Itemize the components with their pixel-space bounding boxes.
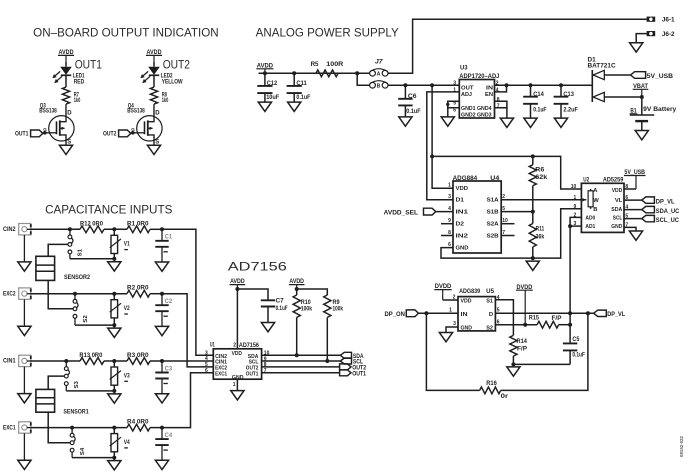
wire <box>150 293 162 295</box>
svg-text:R11: R11 <box>536 226 545 232</box>
wire AD0/AD1 to DP_VL net <box>569 226 571 313</box>
wire U1 SCL <box>262 360 341 362</box>
svg-text:VL: VL <box>615 198 623 204</box>
wire U4 S1A to U2 W <box>501 199 586 201</box>
svg-text:EXC2: EXC2 <box>3 291 16 297</box>
svg-text:EXC1: EXC1 <box>215 371 227 377</box>
node J7 split <box>355 71 359 75</box>
connector output SDA <box>340 352 351 358</box>
svg-text:EXC1: EXC1 <box>3 425 16 431</box>
wire to J7-B <box>357 73 369 85</box>
svg-text:AVDD_SEL: AVDD_SEL <box>384 210 419 216</box>
svg-text:GND: GND <box>456 245 469 251</box>
svg-text:U4: U4 <box>490 176 500 182</box>
ground (R14) <box>507 367 520 376</box>
trimmer cap V2 <box>111 300 118 318</box>
svg-text:OUT1: OUT1 <box>352 371 366 377</box>
switch S4 <box>71 428 73 434</box>
IC U4 ADG884 <box>453 181 501 253</box>
svg-text:3: 3 <box>448 194 451 200</box>
svg-text:IN2: IN2 <box>456 233 469 239</box>
ground (C12) <box>258 102 271 111</box>
capacitor C4 (no pop) <box>161 428 163 440</box>
wire R14 node to C5 bottom <box>513 363 570 365</box>
wire D1 anode to 5V_USB <box>604 74 630 76</box>
svg-text:C6: C6 <box>408 94 417 100</box>
svg-text:AD7156: AD7156 <box>228 261 287 273</box>
node R10/SDA <box>295 353 299 357</box>
capacitor C7 0.1uF <box>261 300 275 306</box>
connector J6-2 <box>647 31 656 36</box>
wire SENSOR1 top to S3 <box>48 376 64 389</box>
svg-text:9V Battery: 9V Battery <box>643 107 677 113</box>
node V1 bottom <box>112 257 116 261</box>
resistor R16 0r <box>480 387 501 394</box>
wire stub S2B <box>501 235 514 237</box>
svg-text:0r: 0r <box>501 394 509 400</box>
wire U1 OUT2 <box>262 366 340 368</box>
svg-text:C13: C13 <box>563 92 574 98</box>
node V2 top <box>112 292 116 296</box>
trimmer cap V4 <box>111 434 118 452</box>
resistor R15 F/P <box>537 321 559 328</box>
svg-text:IN: IN <box>461 312 468 318</box>
capacitor C2 (no pop) <box>161 294 163 306</box>
svg-text:IN: IN <box>486 85 493 91</box>
wire <box>150 228 162 230</box>
node C13 tap <box>559 83 563 87</box>
svg-text:BAT721C: BAT721C <box>588 63 617 69</box>
svg-text:J6-2: J6-2 <box>662 32 675 38</box>
svg-text:A: A <box>377 72 381 78</box>
resistor R4 0R0 <box>127 424 150 431</box>
transistor Q3 BSS138 <box>49 116 74 141</box>
svg-text:BSS138: BSS138 <box>127 108 145 114</box>
svg-text:OUT: OUT <box>461 85 474 91</box>
svg-text:SDA_UC: SDA_UC <box>656 209 680 215</box>
svg-text:C4: C4 <box>165 433 173 439</box>
svg-text:S4: S4 <box>80 447 86 455</box>
node switch S1 tap <box>68 227 72 231</box>
svg-text:GND: GND <box>611 224 622 230</box>
svg-text:62k: 62k <box>535 175 548 181</box>
wire U1 OUT1 <box>262 372 340 374</box>
wire U2 VDD <box>624 188 636 190</box>
wire U2 VL to DP_VL <box>624 199 642 201</box>
resistor R2 0R0 <box>127 290 150 297</box>
svg-text:R3 0R0: R3 0R0 <box>127 353 149 359</box>
wire DP_ON to R16 <box>426 313 479 390</box>
ground (C6) <box>399 117 412 126</box>
svg-text:EN: EN <box>485 92 493 98</box>
transistor Q4 BSS138 <box>137 116 162 141</box>
wire stub IN2 <box>441 235 453 237</box>
svg-text:10: 10 <box>571 184 577 190</box>
svg-text:IN1: IN1 <box>456 210 470 216</box>
svg-text:100k: 100k <box>301 307 313 313</box>
svg-text:VDD: VDD <box>461 298 472 304</box>
capacitor C3 (no pop) <box>161 361 163 373</box>
svg-text:R16: R16 <box>486 381 497 387</box>
svg-text:DP_VL: DP_VL <box>607 312 625 318</box>
capacitor C13 2.2uF <box>560 85 562 97</box>
svg-text:C3: C3 <box>165 366 173 372</box>
wire <box>113 361 115 367</box>
svg-text:0.1uF: 0.1uF <box>533 108 546 114</box>
svg-text:1: 1 <box>449 307 452 313</box>
ground (V2) <box>108 328 121 337</box>
svg-text:0.1uF: 0.1uF <box>276 306 288 312</box>
wire U5 S1 to R14 <box>495 300 513 336</box>
svg-text:100R: 100R <box>326 62 344 68</box>
resistor R6 62k <box>532 156 534 164</box>
svg-text:VDD: VDD <box>232 351 242 357</box>
wire <box>104 360 127 362</box>
LED LED2 YELLOW <box>148 67 160 75</box>
wire DP_VL node down to C5 <box>569 313 571 343</box>
wire U5 GND <box>446 327 458 333</box>
wire stub D2 <box>441 223 453 225</box>
wire U2 SDA to SDA_UC <box>624 209 642 211</box>
sensor SENSOR1 <box>36 389 55 412</box>
svg-text:OUT2: OUT2 <box>103 132 117 138</box>
svg-text:D2: D2 <box>456 222 465 228</box>
svg-text:0.1uF: 0.1uF <box>572 353 585 359</box>
svg-text:GND1 GND4: GND1 GND4 <box>461 106 492 112</box>
wire LED to R8 <box>153 75 155 87</box>
svg-text:RED: RED <box>74 80 85 86</box>
IC U3 ADP1720-ADJ <box>459 80 494 119</box>
wire EXC2 row <box>31 293 127 295</box>
wire CIN1 to U1 pin4 <box>162 360 213 362</box>
svg-text:SDA: SDA <box>611 207 623 213</box>
wire DVDD to U5 VDD <box>443 299 458 301</box>
wire <box>113 294 115 300</box>
node VBAT <box>640 95 644 99</box>
node DP_VL/AD pins <box>568 311 572 315</box>
node R15/C5 <box>568 323 572 327</box>
svg-text:SCL: SCL <box>613 216 623 222</box>
svg-text:R6: R6 <box>535 168 545 174</box>
capacitor C11 0.1uF <box>293 73 295 86</box>
wire J7-B to U3 OUT <box>388 84 459 86</box>
wire U3 IN to D1 cathode <box>495 84 593 86</box>
svg-text:100k: 100k <box>333 307 344 313</box>
svg-text:S2: S2 <box>83 315 89 322</box>
svg-text:R12 0R0: R12 0R0 <box>80 221 104 227</box>
svg-text:OUT1: OUT1 <box>15 132 29 138</box>
wire switch S1 to V1 bottom <box>70 258 114 260</box>
node V3 top <box>112 359 116 363</box>
ground (C14) <box>524 118 537 127</box>
svg-text:S1: S1 <box>486 298 494 304</box>
svg-text:YELLOW: YELLOW <box>162 80 183 86</box>
svg-text:F/P: F/P <box>517 347 527 353</box>
node C4 tap <box>160 426 164 430</box>
connector output SCL <box>340 358 351 364</box>
node C11 tap <box>292 71 296 75</box>
wire J7-A to J6-1 bus <box>388 19 647 73</box>
wire <box>113 385 115 394</box>
IC U2 AD5259 <box>581 183 624 232</box>
svg-text:G: G <box>131 127 135 132</box>
wire R15 to C5 node <box>559 324 570 326</box>
ground (V4) <box>108 461 121 470</box>
svg-text:V4: V4 <box>124 440 131 446</box>
wire U3 left GND pins <box>448 101 460 108</box>
node V1 top <box>112 227 116 231</box>
resistor R7 1k0 <box>62 87 69 104</box>
LED LED1 RED <box>60 67 72 75</box>
svg-text:5V_USB: 5V_USB <box>647 73 674 80</box>
node AVDD/R10 <box>295 287 299 291</box>
wire <box>113 452 115 461</box>
svg-text:3: 3 <box>453 81 456 87</box>
svg-text:CIN1: CIN1 <box>3 359 16 365</box>
svg-text:1: 1 <box>233 382 236 388</box>
svg-text:C7: C7 <box>276 298 285 304</box>
svg-text:1: 1 <box>448 183 451 189</box>
svg-text:R9: R9 <box>333 300 341 306</box>
svg-text:R5: R5 <box>311 62 320 68</box>
svg-text:2: 2 <box>453 294 456 300</box>
wire U2 AD1 <box>570 225 581 227</box>
potentiometer symbol inside U2 <box>588 191 593 207</box>
wire AVDD rail to R6/U2 A <box>432 156 581 189</box>
node V4 top <box>112 426 116 430</box>
resistor R9 100k <box>324 295 331 317</box>
wire CIN2 to U1 pin3 <box>162 229 213 355</box>
wire switch S3 to V3 bottom <box>66 390 114 392</box>
svg-text:J6-1: J6-1 <box>662 18 675 24</box>
ground (U2) <box>629 231 642 240</box>
wire U3 EN to IN <box>495 85 507 92</box>
wire AVDD to U1 VDD <box>236 289 238 349</box>
svg-text:D: D <box>67 111 72 117</box>
svg-text:S2A: S2A <box>487 222 500 228</box>
capacitor C5 0.1uF <box>563 343 577 350</box>
svg-text:U3: U3 <box>460 66 468 72</box>
capacitor C1 (no pop) <box>161 229 163 241</box>
connector SDA_UC <box>642 206 655 212</box>
svg-text:DP_ON: DP_ON <box>385 312 405 318</box>
wire <box>113 229 115 235</box>
wire D1 anode to VBAT <box>604 96 642 98</box>
node AVDD drop to U4 <box>430 83 434 87</box>
connector input DP_ON <box>406 310 418 317</box>
ground (C13) <box>554 118 567 127</box>
svg-text:2.2uF: 2.2uF <box>563 108 578 114</box>
node V2 bottom <box>112 323 116 327</box>
node switch S2 tap <box>73 292 77 296</box>
svg-text:1: 1 <box>574 195 577 201</box>
wire AVDD to U4 VDD <box>432 85 453 188</box>
resistor R10 100k <box>296 289 298 295</box>
svg-text:ADJ: ADJ <box>461 92 472 98</box>
wire SENSOR2 bottom to S2 <box>48 280 73 308</box>
resistor R14 F/P <box>510 335 517 356</box>
connector J6-1 <box>647 17 656 22</box>
wire U2 GND <box>624 227 636 231</box>
ground (V1) <box>108 262 121 271</box>
svg-text:OUT2: OUT2 <box>163 59 190 71</box>
node C6 tap <box>403 83 407 87</box>
wire U3 right GND pins <box>495 101 507 108</box>
node S1B/R6/R11 <box>531 210 535 214</box>
wire J6-2 to ground <box>636 34 646 43</box>
svg-text:0.1uF: 0.1uF <box>296 95 310 101</box>
wire AVDD to LED <box>65 62 67 67</box>
svg-text:D: D <box>155 111 160 117</box>
wire U4 GND rail to U2 B <box>441 209 581 258</box>
svg-text:S1A: S1A <box>487 198 500 204</box>
resistor R3 0R0 <box>127 358 150 365</box>
svg-text:S1B: S1B <box>487 210 499 216</box>
node AD0/AD1 <box>568 224 572 228</box>
wire AVDD rail to J7-A <box>259 72 370 74</box>
svg-text:ADG884: ADG884 <box>453 176 478 182</box>
node DP_ON/R16 <box>424 311 428 315</box>
wire <box>150 427 162 429</box>
svg-text:C2: C2 <box>165 299 173 305</box>
svg-text:J7: J7 <box>375 60 383 66</box>
svg-text:D: D <box>489 312 493 318</box>
wire CIN1 to R13 <box>31 360 80 362</box>
svg-text:SENSOR2: SENSOR2 <box>64 275 91 281</box>
sensor SENSOR2 <box>36 256 55 280</box>
connector input AVDD_SEL <box>424 208 436 215</box>
connector SCL_UC <box>642 215 655 221</box>
svg-text:B: B <box>377 84 381 90</box>
svg-text:R10: R10 <box>301 300 311 306</box>
node C12 tap <box>263 71 267 75</box>
svg-text:R1 0R0: R1 0R0 <box>127 221 149 227</box>
svg-text:1k0: 1k0 <box>162 98 169 104</box>
svg-text:LED1: LED1 <box>73 73 85 79</box>
svg-text:AD7156: AD7156 <box>239 343 260 349</box>
svg-text:3: 3 <box>453 321 456 327</box>
svg-text:VDD: VDD <box>612 188 623 194</box>
svg-text:BSS138: BSS138 <box>39 108 57 114</box>
svg-text:V2: V2 <box>124 306 131 312</box>
ground (U1) <box>231 391 244 400</box>
ground (C7) <box>261 323 274 332</box>
connector output OUT2 <box>340 364 351 370</box>
wire to R9 <box>297 289 328 295</box>
svg-text:9: 9 <box>574 204 577 210</box>
node C1 tap <box>160 227 164 231</box>
node R6 top <box>531 154 535 158</box>
wire LED to R7 <box>65 75 67 87</box>
svg-text:VDD: VDD <box>456 186 469 192</box>
ground (R11) <box>526 261 539 270</box>
wire EXC1 to U1 pin6 <box>162 373 213 428</box>
svg-text:S3: S3 <box>74 381 80 388</box>
node R14/C5/GND <box>511 362 515 366</box>
connector output OUT1 <box>340 370 351 376</box>
resistor R11 36k <box>532 212 534 224</box>
svg-text:D1: D1 <box>456 198 465 204</box>
svg-text:AD1: AD1 <box>585 224 596 230</box>
ground (U5) <box>439 333 452 342</box>
svg-text:08152-022: 08152-022 <box>679 435 684 457</box>
svg-text:S2B: S2B <box>487 233 499 239</box>
trimmer cap V3 <box>111 367 118 385</box>
svg-text:U1: U1 <box>210 343 215 349</box>
wire R16 to DP_VL <box>501 313 588 390</box>
node DP_VL/R16 <box>586 311 590 315</box>
wire stub S2A <box>501 223 514 225</box>
svg-text:10uF: 10uF <box>266 95 279 101</box>
node V4 bottom <box>112 456 116 460</box>
connector CIN1 <box>19 355 31 366</box>
node R11 bottom / GND rail <box>531 256 535 260</box>
svg-text:R13 0R0: R13 0R0 <box>79 353 103 359</box>
node switch S3 tap <box>64 359 68 363</box>
node R9/SCL <box>325 359 329 363</box>
svg-text:C5: C5 <box>572 337 580 343</box>
ground (U3 left) <box>441 117 454 126</box>
svg-text:B: B <box>593 207 597 213</box>
wire <box>150 360 162 362</box>
svg-text:SENSOR1: SENSOR1 <box>63 410 89 416</box>
wire EXC2 to U1 pin5 <box>162 294 213 367</box>
ground (U3 right) <box>500 118 513 127</box>
wire U5 D to DP_VL <box>495 312 593 314</box>
wire <box>113 254 115 262</box>
svg-text:ADG839: ADG839 <box>459 289 481 295</box>
svg-text:AD5259: AD5259 <box>603 178 624 184</box>
connector EXC2 <box>19 288 31 299</box>
svg-text:0.1uF: 0.1uF <box>406 109 421 115</box>
ground (J6-2) <box>630 43 643 52</box>
svg-text:AD0: AD0 <box>585 216 595 222</box>
connector DP_VL (lower) <box>594 310 607 316</box>
resistor R13 0R0 <box>80 358 104 365</box>
IC U1 AD7156 <box>213 349 261 379</box>
node switch S4 tap <box>70 426 74 430</box>
node C14 tap <box>529 83 533 87</box>
connector CIN2 <box>19 224 31 235</box>
connector EXC1 <box>19 422 31 433</box>
svg-text:S2: S2 <box>486 325 493 331</box>
svg-text:F/P: F/P <box>552 316 562 322</box>
node C3 tap <box>160 359 164 363</box>
svg-text:ON–BOARD OUTPUT INDICATION: ON–BOARD OUTPUT INDICATION <box>33 27 219 39</box>
svg-text:W: W <box>593 198 599 204</box>
wire <box>113 428 115 434</box>
svg-text:6: 6 <box>205 368 208 374</box>
wire SENSOR1 bottom to S4 <box>48 412 70 443</box>
wire DP_ON to U5 IN <box>419 312 459 314</box>
svg-text:36k: 36k <box>536 235 545 241</box>
svg-text:V1: V1 <box>124 242 131 248</box>
svg-text:U2: U2 <box>583 178 589 184</box>
trimmer cap V1 <box>111 235 118 253</box>
node V3 bottom <box>112 389 116 393</box>
svg-text:OUT1: OUT1 <box>246 371 259 377</box>
wire U4 S1B to R6/R11 node <box>501 211 533 213</box>
svg-text:1k0: 1k0 <box>74 98 81 104</box>
svg-text:2: 2 <box>233 343 236 349</box>
wire switch S4 to V4 bottom <box>72 457 114 459</box>
wire AVDD to LED <box>153 62 155 67</box>
resistor R5 100R <box>316 70 338 77</box>
node AVDD/C7 <box>235 287 239 291</box>
wire switch S2 to V2 bottom <box>75 324 114 326</box>
svg-text:GND2 GND3: GND2 GND3 <box>461 113 492 119</box>
svg-text:C14: C14 <box>533 92 544 98</box>
